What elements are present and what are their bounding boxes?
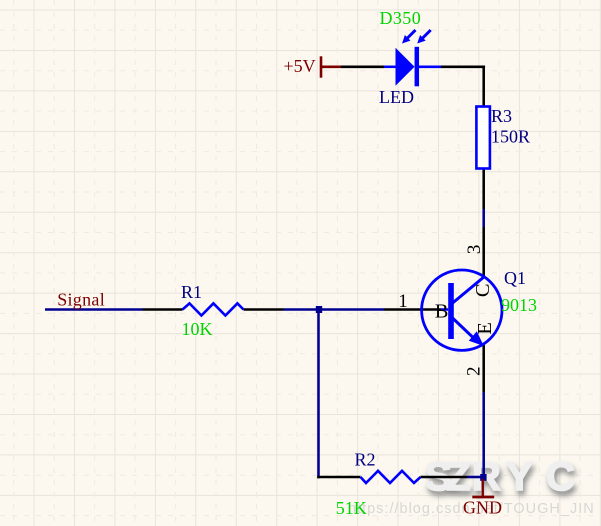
- svg-text:D350: D350: [380, 8, 422, 28]
- svg-text:51K: 51K: [336, 498, 367, 518]
- svg-text:10K: 10K: [182, 319, 213, 339]
- svg-text:1: 1: [398, 291, 408, 312]
- svg-text:E: E: [474, 322, 496, 335]
- svg-text:2: 2: [464, 366, 485, 376]
- svg-text:C: C: [472, 283, 494, 297]
- svg-text:+5V: +5V: [284, 56, 316, 76]
- svg-text:Q1: Q1: [504, 268, 526, 288]
- svg-text:GND: GND: [463, 498, 502, 518]
- svg-text:B: B: [435, 301, 449, 323]
- svg-text:R1: R1: [181, 282, 202, 302]
- svg-text:3: 3: [464, 245, 485, 255]
- svg-text:R2: R2: [355, 450, 376, 470]
- svg-text:R3: R3: [491, 106, 512, 126]
- svg-text:Signal: Signal: [57, 290, 105, 310]
- svg-text:9013: 9013: [501, 295, 537, 315]
- svg-text:LED: LED: [379, 87, 414, 107]
- svg-text:150R: 150R: [491, 127, 530, 147]
